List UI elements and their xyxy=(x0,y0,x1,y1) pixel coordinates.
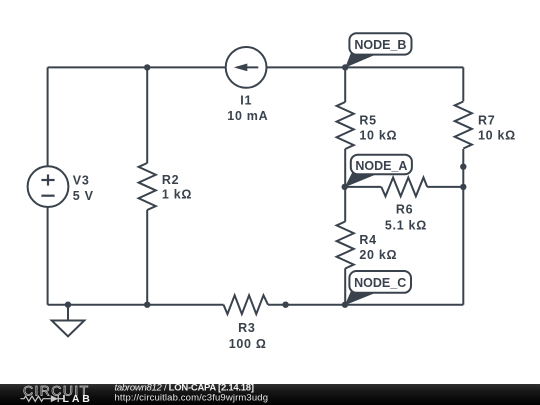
current source I1 xyxy=(226,47,269,123)
svg-text:V3: V3 xyxy=(73,174,90,188)
svg-text:1 kΩ: 1 kΩ xyxy=(162,188,192,202)
svg-text:5.1 kΩ: 5.1 kΩ xyxy=(385,219,427,233)
node B junction xyxy=(342,64,348,70)
svg-text:R3: R3 xyxy=(238,321,255,335)
svg-text:10 kΩ: 10 kΩ xyxy=(478,129,516,143)
svg-text:R4: R4 xyxy=(359,233,376,247)
footer credit line xyxy=(115,383,255,394)
svg-text:100 Ω: 100 Ω xyxy=(229,337,267,351)
svg-text:R6: R6 xyxy=(396,203,413,217)
svg-text:R2: R2 xyxy=(162,173,179,187)
junction ground xyxy=(65,302,71,308)
svg-text:R5: R5 xyxy=(359,114,376,128)
footer bar xyxy=(0,384,540,405)
wire left vertical xyxy=(47,67,49,304)
svg-text:http://circuitlab.com/c3fu9wjr: http://circuitlab.com/c3fu9wjrm3udg xyxy=(115,393,269,404)
svg-text:20 kΩ: 20 kΩ xyxy=(359,248,397,262)
svg-text:NODE_C: NODE_C xyxy=(354,276,406,290)
svg-text:LAB: LAB xyxy=(63,393,93,405)
svg-text:I1: I1 xyxy=(240,94,252,108)
junction R2 bottom xyxy=(144,302,150,308)
resistor R3 xyxy=(224,295,269,351)
wire right vertical xyxy=(462,67,464,304)
CircuitLab logo xyxy=(21,382,93,405)
svg-text:10 mA: 10 mA xyxy=(227,109,268,123)
wire top horizontal xyxy=(48,66,464,68)
node label NODE_B xyxy=(345,33,411,67)
svg-text:5 V: 5 V xyxy=(73,189,94,203)
svg-text:10 kΩ: 10 kΩ xyxy=(359,129,397,143)
svg-text:NODE_B: NODE_B xyxy=(354,38,406,52)
wire R2 branch vertical xyxy=(146,67,148,304)
svg-text:R7: R7 xyxy=(478,114,495,128)
resistor R7 xyxy=(450,101,516,149)
node label NODE_C xyxy=(345,271,411,305)
resistor R2 xyxy=(134,163,192,210)
junction R2 top xyxy=(144,64,150,70)
node C junction xyxy=(342,302,348,308)
junction R6 right xyxy=(460,184,466,190)
wire middle branch vertical (node B to node C) xyxy=(344,67,346,304)
node label NODE_A xyxy=(345,155,412,188)
wire bottom horizontal xyxy=(48,304,224,306)
node A junction xyxy=(342,184,348,190)
resistor R6 xyxy=(381,178,427,233)
voltage source V3 xyxy=(28,166,94,207)
resistor R5 xyxy=(332,102,397,149)
resistor R4 xyxy=(332,222,397,269)
ground xyxy=(52,305,85,337)
svg-text:NODE_A: NODE_A xyxy=(355,159,407,173)
footer url line xyxy=(115,393,269,404)
wire R6 branch horizontal xyxy=(345,186,382,188)
junction R3 right xyxy=(282,302,288,308)
junction R7 bottom xyxy=(460,164,466,170)
